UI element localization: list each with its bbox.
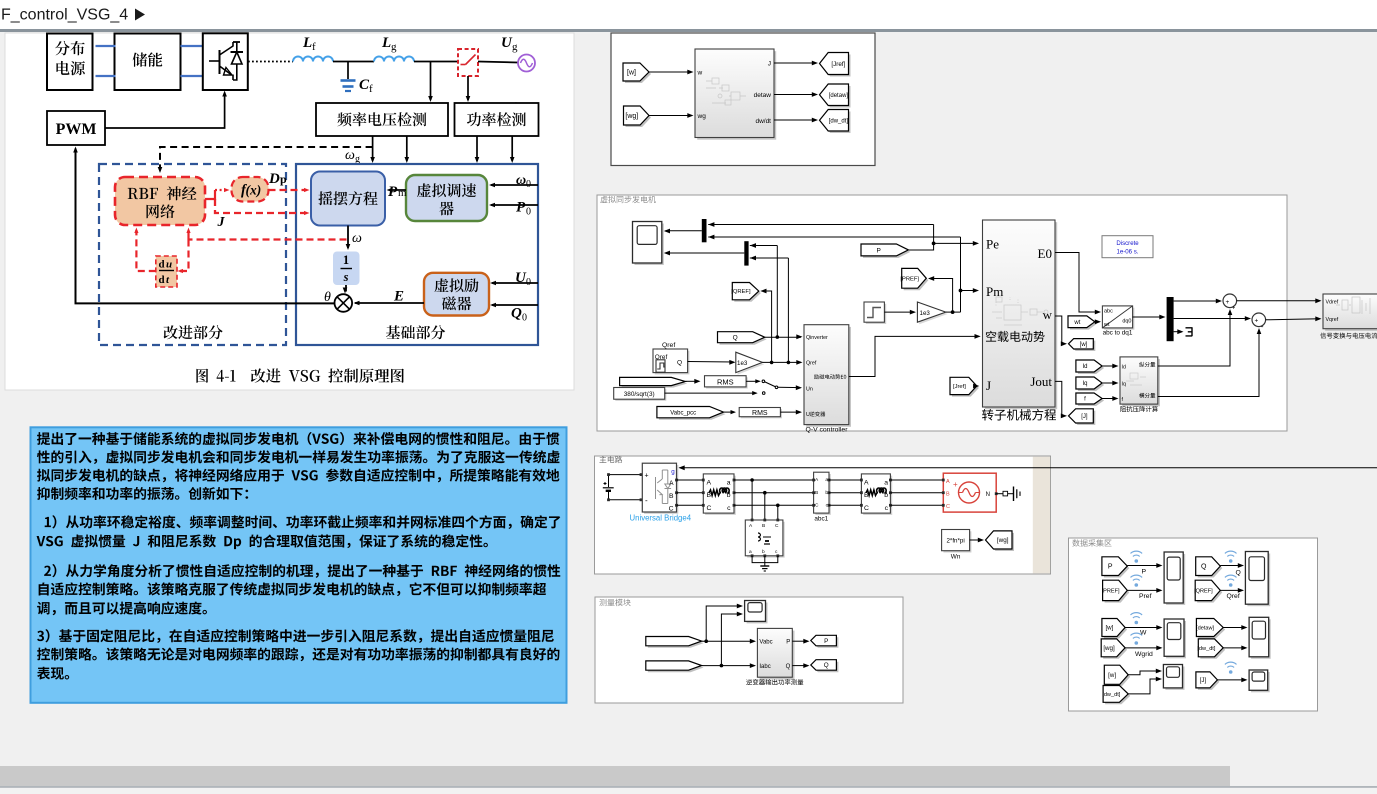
red wire RBF to f(x): [205, 190, 215, 199]
svg-text:B: B: [762, 523, 765, 529]
svg-text:+: +: [645, 473, 649, 480]
svg-text:Qref: Qref: [1227, 593, 1240, 600]
wire to RMS2: [724, 411, 735, 413]
wire Pm: [389, 189, 406, 191]
svg-text:+: +: [953, 480, 958, 489]
goto tag [w]: [1071, 341, 1096, 351]
svg-text:Un: Un: [806, 387, 813, 393]
svg-text:[wg]: [wg]: [1103, 645, 1115, 652]
from tag [wg]: [626, 108, 652, 127]
svg-text:m: m: [398, 187, 407, 199]
wire detaw to scope4: [1223, 627, 1246, 629]
goto tag [J]: [1071, 411, 1096, 425]
three-phase RLC branch 2: [863, 476, 892, 515]
wire switch to power detection: [467, 76, 469, 100]
wire E0 from QV to big block: [849, 336, 979, 376]
phase wires abc1 to RLC2: [829, 479, 861, 481]
dashed wire omega-g to RBF: [160, 147, 373, 170]
goto tag [QREF]: [734, 285, 761, 302]
wire tap to frequency detection: [430, 62, 432, 101]
wire sum1 to Vdref: [1237, 300, 1320, 302]
svg-text:E: E: [393, 289, 404, 305]
wire [w] to subsystem: [649, 71, 692, 73]
wire Wn to [wg]: [970, 539, 983, 541]
wire demux d to sum1: [1174, 300, 1221, 302]
from tag [dw_dt] (daq): [1200, 641, 1225, 659]
svg-text:+: +: [1232, 305, 1236, 312]
svg-text:w: w: [1043, 307, 1053, 322]
goto tag [dw_dt]: [822, 112, 851, 134]
svg-text:Vqref: Vqref: [1326, 317, 1339, 323]
svg-text:c: c: [727, 505, 731, 512]
svg-text:[w]: [w]: [1080, 342, 1088, 348]
svg-text:1e-06 s.: 1e-06 s.: [1116, 249, 1138, 256]
svg-text:ω: ω: [516, 173, 526, 188]
impedance drop block 阻抗压降计算: [1122, 359, 1160, 406]
AC grid source Ug: [518, 55, 535, 72]
svg-text:Pe: Pe: [986, 237, 999, 252]
wire Lg to switch: [414, 61, 458, 63]
svg-text:Universal Bridge4: Universal Bridge4: [630, 514, 692, 523]
svg-text:-: -: [645, 496, 648, 505]
sum circle 2 (Vq): [1252, 313, 1266, 327]
svg-text:0: 0: [522, 313, 527, 324]
from tag f: [1078, 395, 1104, 406]
Qref source block: [655, 351, 690, 375]
figure white area: [5, 33, 574, 390]
wire switch to grid source: [478, 62, 518, 63]
power measurement subsystem: [760, 631, 795, 680]
svg-text:Q: Q: [786, 664, 791, 670]
svg-text:[J]: [J]: [1200, 677, 1207, 684]
wire Z vertical-component to sum1: [1158, 311, 1230, 367]
block 1/s integrator: [333, 252, 360, 286]
from tag wt: [1070, 318, 1097, 330]
svg-text:P: P: [1142, 569, 1147, 576]
svg-text:abc1: abc1: [814, 516, 828, 523]
scope w/dwdt row3: [1165, 667, 1184, 690]
Universal Bridge4 block: [644, 465, 678, 514]
panel 测量模块: [595, 597, 903, 703]
dashed region 改进部分 (improved part): [99, 164, 286, 345]
svg-text:P: P: [1108, 564, 1113, 571]
svg-text:g: g: [671, 468, 675, 475]
mux bar 1: [702, 219, 707, 242]
inverter block with IGBT symbol: [203, 33, 248, 90]
wire U0 input: [492, 282, 538, 284]
svg-text:[w]: [w]: [1105, 625, 1113, 632]
svg-text:g: g: [391, 41, 397, 53]
svg-text:a: a: [749, 550, 752, 555]
filter outputs to ground bus: [752, 556, 778, 563]
svg-text:P: P: [824, 638, 828, 645]
gain 1e3 (Q path): [738, 354, 765, 375]
svg-text:N: N: [986, 492, 990, 498]
svg-text:B: B: [946, 492, 950, 498]
wire Qref to mux2: [750, 257, 789, 259]
top-right panel area: [611, 33, 875, 166]
goto tag P (measure): [813, 637, 839, 648]
svg-text:C: C: [707, 505, 712, 512]
svg-text:Qref: Qref: [806, 361, 817, 367]
phase wires RLC1 to abc1 measure: [734, 479, 814, 481]
from tag [w] row3: [1106, 667, 1130, 686]
horizontal scrollbar: [0, 766, 1377, 786]
svg-text:Qinverter: Qinverter: [806, 335, 828, 341]
block 频率电压检测 (frequency-voltage detection): [316, 103, 448, 136]
gate wire g: [680, 467, 1377, 469]
block PWM: [47, 111, 105, 145]
goto tag [PREF]: [904, 270, 929, 290]
svg-text:[wg]: [wg]: [625, 113, 638, 120]
from tag [wg] (daq): [1103, 641, 1127, 659]
svg-text:C: C: [946, 504, 950, 510]
inductor Lg: [374, 57, 414, 62]
rotor mechanical equation block 空载电动势: [985, 222, 1057, 409]
from tag [w] (daq): [1104, 621, 1127, 639]
wire omega out of swing equation: [347, 226, 349, 249]
from tag [dw_dt] row3: [1105, 688, 1130, 705]
wire E0 to abc2dq: [1055, 253, 1100, 313]
svg-text:ω: ω: [345, 148, 355, 163]
step block: [866, 304, 886, 324]
block 虚拟调速器 (virtual governor): [406, 175, 487, 221]
svg-text:[PREF]: [PREF]: [1102, 588, 1120, 594]
wire integrator to multiplier: [345, 285, 347, 292]
wire P to scope1: [1127, 565, 1161, 567]
from tag Id: [1078, 362, 1104, 374]
from tag P: [863, 246, 910, 258]
svg-text:[wg]: [wg]: [997, 537, 1009, 544]
svg-text:(x): (x): [246, 183, 262, 198]
from tag Q: [720, 334, 767, 345]
svg-text:L: L: [302, 35, 312, 51]
block RMS 1: [706, 377, 748, 388]
wire DC bus pair 1: [96, 45, 116, 47]
abc to dq0 transform block: [1104, 308, 1134, 330]
wire to RMS1: [685, 380, 699, 382]
blue summary text box: [31, 427, 567, 703]
from tag [detaw] (daq): [1198, 621, 1225, 639]
block 虚拟励磁器 (virtual exciter): [424, 273, 489, 316]
wire P0 input: [491, 204, 538, 206]
svg-text:[dw_dt]: [dw_dt]: [1102, 692, 1120, 698]
demux bar: [1167, 297, 1174, 341]
three-phase RLC branch 1: [705, 476, 736, 515]
wire constant to switch: [665, 392, 757, 394]
inductor Lf: [293, 57, 333, 62]
wire Q out: [792, 665, 808, 667]
svg-text:Q: Q: [1236, 570, 1241, 577]
from tag [w]: [625, 65, 651, 83]
svg-text:Wn: Wn: [951, 554, 961, 561]
wire wt to abc2dq: [1095, 321, 1100, 323]
wire gain2 to Pm / scope / PREF: [946, 311, 961, 313]
scope detaw/dwdt: [1251, 619, 1271, 659]
svg-text:+: +: [1226, 299, 1230, 306]
wire tag1 to Vabc and scope: [702, 640, 755, 642]
wire w to scope5: [1128, 671, 1160, 675]
svg-text:abc to dq1: abc to dq1: [1103, 330, 1133, 337]
wire DC bus pair 2: [181, 45, 203, 47]
wire w to scope3: [1125, 627, 1161, 629]
svg-text:J: J: [217, 215, 226, 230]
from tag Q (daq): [1198, 559, 1223, 578]
wire Qref to gain: [688, 361, 734, 364]
svg-text:RMS: RMS: [752, 410, 768, 417]
wire demux q to sum2: [1174, 318, 1250, 320]
wire tag2 to Iabc and scope: [702, 665, 755, 667]
svg-text:d: d: [159, 259, 165, 271]
wire step to gain: [884, 311, 914, 313]
scope w/wg: [1166, 621, 1186, 658]
svg-text:d: d: [159, 274, 165, 286]
red dashed omega feedback wire: [189, 238, 347, 240]
wire Q to QV controller: [765, 336, 801, 338]
wire Jout to goto [J]: [1055, 381, 1066, 416]
from tag [QREF] (daq): [1197, 582, 1222, 602]
svg-text:A: A: [707, 480, 712, 487]
manual switch: [762, 380, 765, 383]
scope Q/Qref: [1247, 554, 1270, 607]
wire J out: [774, 62, 816, 64]
svg-text:a: a: [884, 480, 888, 487]
svg-text:Iq: Iq: [1122, 382, 1126, 388]
scope P/Pref: [1166, 554, 1185, 605]
svg-text:0: 0: [526, 277, 531, 288]
svg-text:J: J: [768, 61, 771, 68]
wire dw_dt to scope5: [1128, 679, 1160, 694]
wire [wg] to subsystem: [649, 115, 692, 117]
wire P out: [792, 640, 808, 642]
block 分布电源 (distributed source): [47, 34, 93, 91]
svg-text:0: 0: [526, 179, 531, 190]
scope block top-left: [635, 224, 664, 266]
goto tag [detaw]: [822, 86, 851, 108]
region 基础部分 (basic part): [296, 164, 538, 345]
wire demux 0 to terminator: [1174, 331, 1182, 333]
svg-text:[dw_dt]: [dw_dt]: [829, 118, 849, 124]
svg-text:+: +: [1255, 318, 1259, 325]
svg-text:Pref: Pref: [1139, 593, 1152, 600]
wire Q0 input: [492, 304, 538, 306]
wire Z horizontal-component to sum2: [1158, 330, 1259, 397]
svg-text:Vabc: Vabc: [759, 640, 772, 646]
block f(x): [232, 177, 269, 202]
svg-text:Q: Q: [677, 360, 682, 367]
svg-text:Iabc: Iabc: [759, 664, 770, 670]
svg-text:L: L: [381, 35, 391, 51]
ground (down): [760, 565, 769, 567]
wire P to Pe: [908, 225, 933, 251]
svg-text:[w]: [w]: [1108, 672, 1116, 679]
svg-text:B: B: [669, 493, 674, 500]
block du/dt: [156, 256, 177, 287]
svg-text:ω: ω: [352, 231, 362, 246]
svg-text:PWM: PWM: [56, 121, 97, 138]
svg-text:s: s: [343, 270, 349, 284]
adaptive-J subsystem block: [697, 51, 776, 140]
wire Jref to J port: [977, 385, 978, 387]
svg-text:Vdref: Vdref: [1326, 300, 1339, 306]
svg-text:U: U: [806, 412, 810, 418]
svg-text:[QREF]: [QREF]: [731, 289, 751, 295]
svg-text:C: C: [775, 523, 779, 529]
svg-text:wt: wt: [1103, 322, 1110, 328]
svg-text:g: g: [512, 41, 518, 53]
from tag P (daq): [1104, 559, 1129, 578]
capacitor Cf: [347, 62, 349, 80]
label 电网 (grid): [511, 102, 538, 116]
wide from tag 1 (Vabc): [648, 639, 704, 648]
svg-text:1e3: 1e3: [737, 360, 748, 367]
wire Q to scope2: [1220, 565, 1242, 567]
wire P to mux1: [708, 224, 933, 226]
block 摇摆方程 (swing equation): [311, 172, 385, 226]
terminator: [1186, 327, 1193, 336]
wires detection outputs down: [372, 136, 374, 161]
svg-text:Wgrid: Wgrid: [1135, 651, 1153, 658]
svg-text:u: u: [166, 259, 172, 271]
svg-text:[Jref]: [Jref]: [953, 384, 966, 390]
wire dw/dt out: [774, 119, 816, 121]
svg-text:[PREF]: [PREF]: [900, 276, 919, 282]
svg-text:380/sqrt(3): 380/sqrt(3): [624, 391, 655, 398]
svg-text:F_control_VSG_4: F_control_VSG_4: [1, 7, 128, 24]
blue box text: [37, 432, 559, 445]
svg-text:dq0: dq0: [1122, 319, 1131, 325]
svg-text:f: f: [369, 83, 373, 95]
phase wires RLC2 to grid source: [890, 479, 943, 481]
wire omega-0 input: [491, 184, 538, 186]
panel 虚拟同步发电机: [597, 195, 1287, 431]
svg-text:dw/dt: dw/dt: [755, 118, 771, 125]
wire Lf to Lg: [333, 61, 374, 63]
discrete powergui block: [1102, 236, 1153, 258]
svg-text:Jout: Jout: [1030, 374, 1052, 389]
block 功率检测 (power detection): [455, 103, 539, 136]
wire N to ground: [996, 493, 1003, 495]
wire J to scope6: [1217, 679, 1246, 681]
wire RMS1 to switch: [746, 380, 759, 382]
from tag [J] (daq): [1198, 674, 1220, 690]
svg-text:RMS: RMS: [717, 378, 734, 387]
svg-text:[J]: [J]: [1081, 414, 1088, 420]
svg-text:Q: Q: [733, 335, 738, 342]
wire detaw out: [774, 94, 816, 96]
svg-text:Q: Q: [1201, 564, 1207, 571]
wire gain to QV Qref port: [763, 361, 802, 363]
gain 1e3 (P path): [919, 304, 947, 324]
mux bar 2: [744, 241, 748, 265]
multiplier circle-x: [335, 294, 353, 312]
svg-text:P: P: [877, 247, 881, 254]
svg-text:c: c: [885, 505, 889, 512]
goto tag [wg]: [988, 533, 1015, 551]
DC voltage source (battery): [609, 474, 642, 476]
signal transform block (right edge): [1325, 296, 1377, 331]
svg-text:[w]: [w]: [627, 70, 636, 77]
wire dq0 to demux: [1133, 316, 1164, 318]
red dashed wire Dp to swing equation: [269, 189, 307, 191]
svg-text:2*fn*pi: 2*fn*pi: [946, 538, 964, 545]
svg-text:A: A: [946, 479, 950, 485]
svg-text:Discrete: Discrete: [1116, 240, 1139, 247]
tap wires down to LC filter: [751, 480, 753, 520]
panel 数据采集区: [1069, 538, 1318, 711]
wide from tag 2 (Iabc): [648, 663, 704, 672]
svg-text:W: W: [1140, 630, 1147, 637]
wire PREF to scope1: [1127, 589, 1161, 591]
red dashed wire J to swing equation: [215, 199, 306, 213]
label 改进部分: [164, 325, 223, 339]
svg-text:B: B: [815, 490, 818, 496]
wire inverter output dotted: [248, 61, 293, 63]
breaker switch (red dashed): [458, 49, 478, 76]
svg-text:E0: E0: [1038, 246, 1052, 261]
wire Qref tap to [QREF]: [762, 291, 772, 362]
top breadcrumb bar: [0, 0, 1377, 29]
svg-text:Id: Id: [1082, 364, 1087, 370]
svg-text:[dw_dt]: [dw_dt]: [1197, 646, 1215, 652]
svg-text:detaw: detaw: [754, 92, 772, 99]
constant 380/sqrt(3): [615, 389, 666, 401]
svg-text:Vabc_pcc: Vabc_pcc: [670, 410, 696, 416]
wire wg to scope3: [1125, 647, 1161, 649]
red dashed wire du/dt to RBF: [136, 230, 155, 271]
svg-text:Id: Id: [1122, 365, 1126, 371]
svg-text:a: a: [727, 480, 731, 487]
svg-text:f: f: [312, 41, 316, 53]
wire w out to goto [w]: [1055, 316, 1066, 344]
svg-text:[Jref]: [Jref]: [831, 61, 845, 68]
svg-text:C: C: [815, 503, 819, 509]
figure caption 图4-1: [196, 369, 235, 383]
svg-text:C: C: [669, 506, 674, 513]
toolbar separator line: [0, 29, 1377, 32]
from tag Vabc_pcc: [659, 409, 726, 420]
measurement block abc1: [815, 474, 830, 515]
panel 主电路: [595, 456, 1051, 574]
svg-text:[detaw]: [detaw]: [1196, 626, 1214, 632]
from tag [Jref]: [952, 379, 979, 396]
constant 2*fn*pi (Wn): [943, 531, 971, 552]
svg-text:Iq: Iq: [1082, 381, 1087, 387]
svg-text:wg: wg: [697, 113, 707, 120]
ground (right): [1013, 487, 1015, 502]
svg-text:P: P: [786, 640, 790, 646]
wire Pm to mux1: [708, 236, 960, 238]
LC filter block: [747, 522, 785, 558]
svg-text:b: b: [762, 549, 765, 555]
svg-text:p: p: [280, 172, 287, 186]
svg-text:Q: Q: [511, 306, 522, 322]
scope J: [1251, 672, 1270, 692]
goto tag [Jref]: [822, 55, 851, 77]
svg-text:w: w: [697, 70, 703, 77]
svg-text:P: P: [388, 184, 398, 200]
svg-text:1e3: 1e3: [920, 310, 931, 317]
wire E: [355, 302, 424, 304]
svg-text:wt: wt: [1073, 320, 1080, 326]
wire QREF to scope2: [1220, 589, 1242, 591]
svg-text:A: A: [864, 480, 869, 487]
block RBF neural network: [115, 177, 205, 225]
block RMS 2: [741, 409, 782, 418]
block Q-V controller: [806, 327, 851, 427]
wire RMS2 to QV: [780, 411, 800, 413]
wide from tag (Uinv RMS input): [622, 379, 688, 387]
